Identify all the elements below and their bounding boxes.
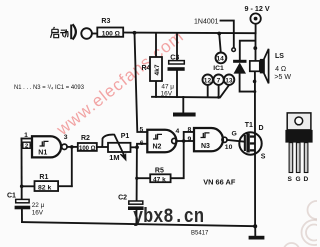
svg-text:ybx8.cn: ybx8.cn — [133, 206, 204, 229]
svg-text:C3: C3 — [170, 55, 179, 62]
svg-text:G: G — [296, 176, 301, 183]
svg-text:R2: R2 — [81, 135, 90, 142]
svg-text:D: D — [259, 125, 264, 132]
svg-text:N1: N1 — [38, 149, 47, 156]
svg-text:7: 7 — [217, 77, 221, 84]
svg-text:4: 4 — [176, 128, 180, 135]
svg-text:>5 W: >5 W — [274, 74, 291, 81]
svg-text:G: G — [232, 131, 237, 138]
svg-text:S: S — [261, 154, 266, 161]
svg-text:9 - 12 V: 9 - 12 V — [245, 4, 270, 13]
svg-text:5: 5 — [140, 127, 144, 134]
svg-text:16V: 16V — [161, 91, 173, 98]
svg-text:10: 10 — [225, 144, 233, 151]
svg-text:82 k: 82 k — [38, 185, 51, 192]
svg-text:9: 9 — [188, 136, 192, 143]
svg-text:47 k: 47 k — [153, 177, 166, 184]
svg-text:R4: R4 — [142, 65, 151, 72]
svg-text:100 Ω: 100 Ω — [102, 31, 121, 38]
svg-text:R5: R5 — [155, 168, 164, 175]
svg-text:T1: T1 — [245, 122, 253, 129]
svg-text:1N4001: 1N4001 — [194, 19, 219, 26]
svg-text:C1: C1 — [7, 193, 16, 200]
svg-text:B5417: B5417 — [191, 231, 209, 237]
svg-text:12: 12 — [204, 77, 212, 84]
svg-text:R1: R1 — [39, 174, 48, 181]
svg-text:VN 66 AF: VN 66 AF — [203, 178, 236, 187]
svg-text:100 Ω: 100 Ω — [79, 145, 96, 152]
svg-text:R3: R3 — [101, 18, 110, 25]
svg-text:13: 13 — [225, 77, 233, 84]
svg-text:8: 8 — [188, 126, 192, 133]
svg-text:3: 3 — [64, 134, 68, 141]
svg-text:1M: 1M — [109, 153, 119, 162]
svg-text:14: 14 — [217, 56, 225, 63]
svg-text:22 μ: 22 μ — [32, 202, 45, 209]
svg-text:4 Ω: 4 Ω — [275, 66, 286, 73]
svg-text:C2: C2 — [118, 195, 127, 202]
svg-text:1: 1 — [24, 132, 28, 139]
svg-text:N1 . . . N3 = ¹/₄ IC1 = 4093: N1 . . . N3 = ¹/₄ IC1 = 4093 — [14, 84, 84, 91]
svg-text:16V: 16V — [32, 210, 44, 217]
svg-text:S: S — [288, 176, 293, 183]
svg-text:D: D — [304, 176, 309, 183]
svg-text:N2: N2 — [153, 144, 162, 151]
svg-text:IC1: IC1 — [213, 65, 224, 72]
svg-text:P1: P1 — [121, 133, 130, 140]
svg-text:N3: N3 — [201, 143, 210, 150]
svg-text:LS: LS — [275, 53, 284, 60]
svg-text:47 μ: 47 μ — [161, 84, 174, 91]
svg-text:6: 6 — [140, 140, 144, 147]
svg-text:4k7: 4k7 — [154, 64, 161, 75]
